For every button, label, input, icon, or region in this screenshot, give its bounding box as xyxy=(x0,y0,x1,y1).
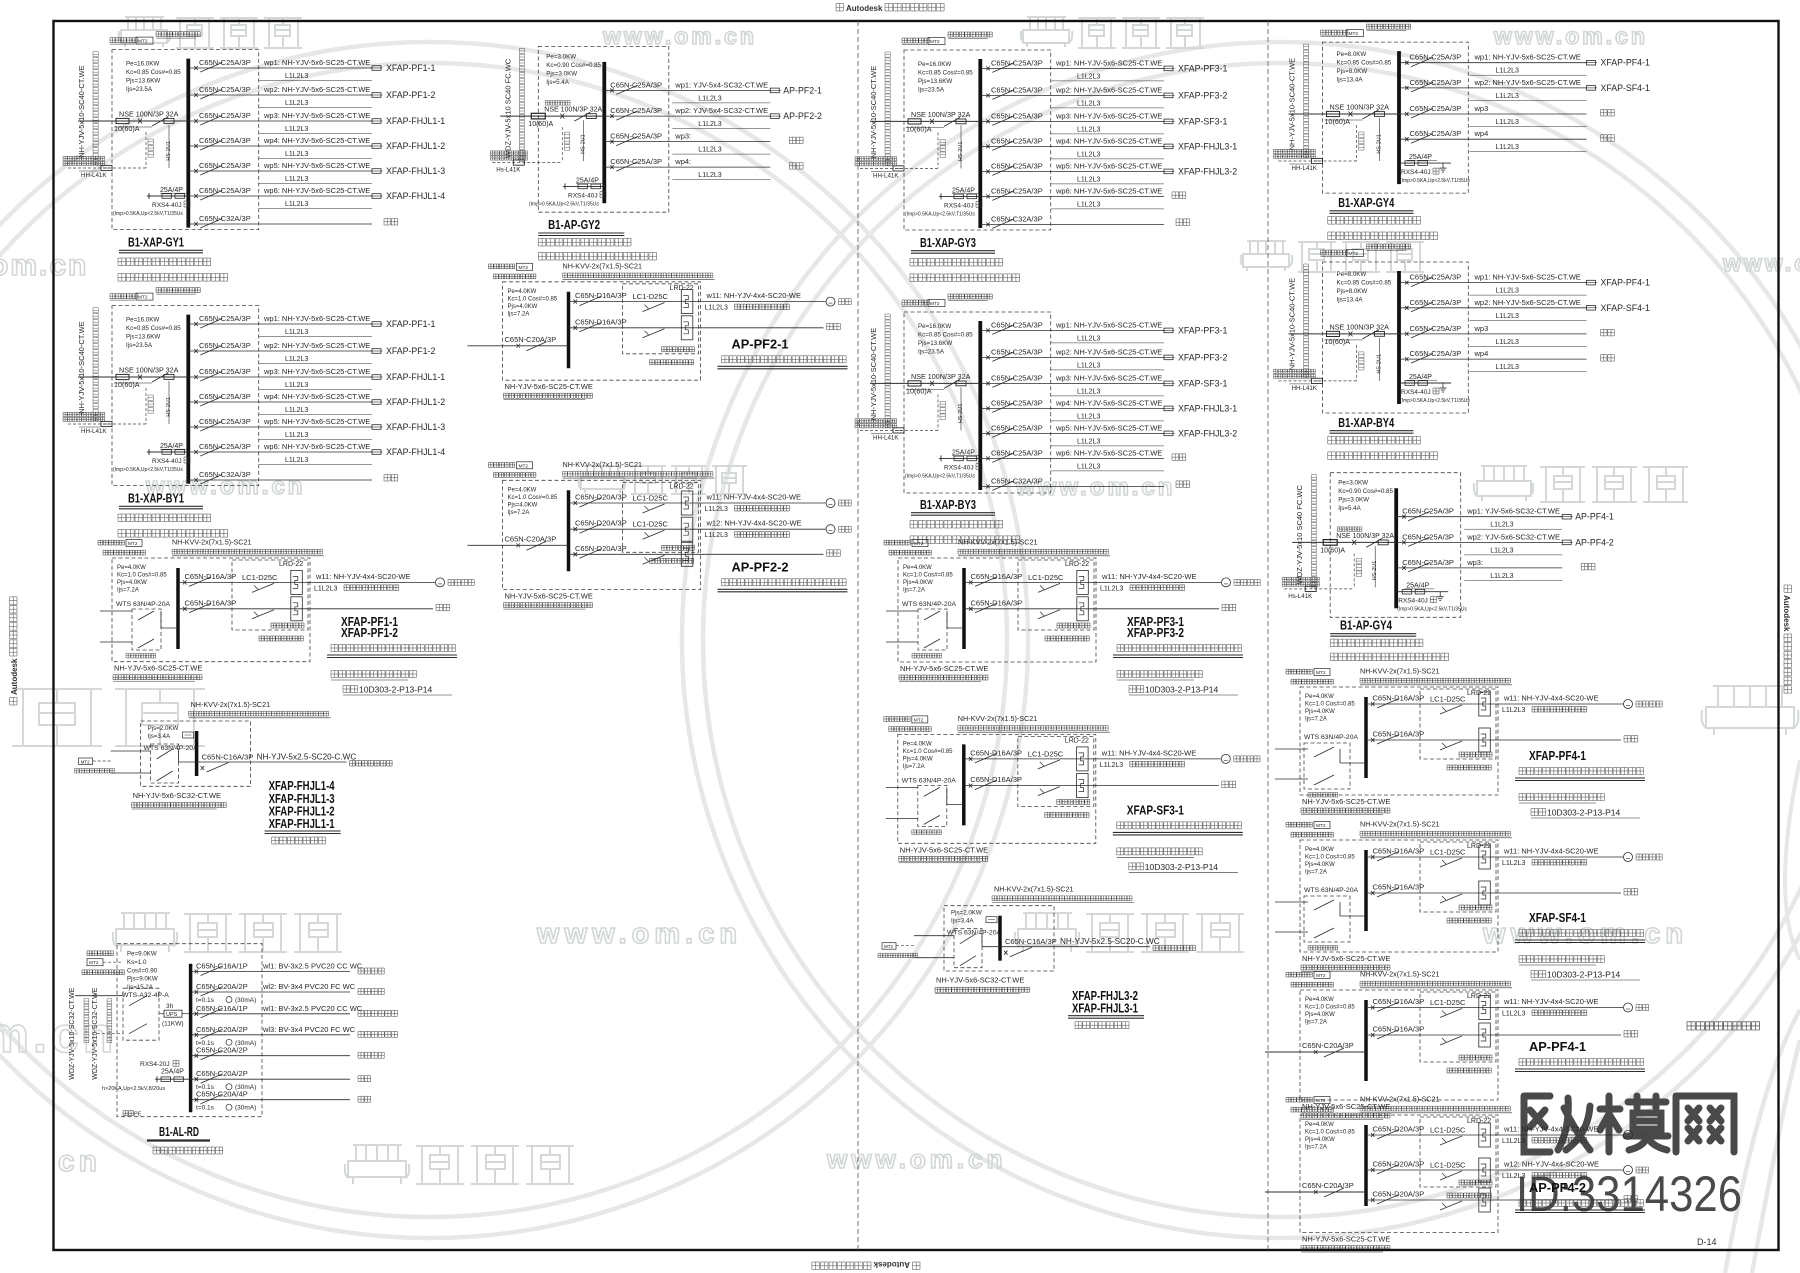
svg-text:RXS4-20J: RXS4-20J xyxy=(140,1061,170,1068)
svg-text:Kc=1.0 Cos#=0.85: Kc=1.0 Cos#=0.85 xyxy=(903,573,953,579)
svg-text:NH-YJV-5x6-SC25-CT.WE: NH-YJV-5x6-SC25-CT.WE xyxy=(505,382,593,391)
svg-text:Ijs=7.2A: Ijs=7.2A xyxy=(1305,870,1327,876)
svg-text:C65N-C20A/3P: C65N-C20A/3P xyxy=(1302,1041,1354,1050)
svg-text:L1L2L3: L1L2L3 xyxy=(285,73,308,80)
svg-text:C65N-C25A/3P: C65N-C25A/3P xyxy=(199,367,251,376)
svg-text:L1L2L3: L1L2L3 xyxy=(698,147,721,154)
svg-text:t=0.1s: t=0.1s xyxy=(196,1105,215,1112)
svg-text:Pjs=8.0KW: Pjs=8.0KW xyxy=(1337,68,1368,75)
svg-text:Cos#=0.90: Cos#=0.90 xyxy=(127,967,158,974)
svg-text:NH-KVV-2x(7x1.5)-SC21: NH-KVV-2x(7x1.5)-SC21 xyxy=(191,700,271,709)
svg-text:XFAP-SF4-1: XFAP-SF4-1 xyxy=(1601,83,1650,93)
svg-text:Ijs=7.2A: Ijs=7.2A xyxy=(1305,1020,1327,1026)
svg-text:NSE 100N/3P 32A: NSE 100N/3P 32A xyxy=(1336,533,1394,540)
svg-text:Kc=0.90 Cos#=0.85: Kc=0.90 Cos#=0.85 xyxy=(1338,488,1393,495)
svg-text:NH-KVV-2x(7x1.5)-SC21: NH-KVV-2x(7x1.5)-SC21 xyxy=(563,261,643,270)
svg-text:LC1-D25C: LC1-D25C xyxy=(242,573,278,582)
svg-text:L1L2L3: L1L2L3 xyxy=(1077,335,1100,342)
svg-text:NH-YJV-5x10-SC40-CT.WE: NH-YJV-5x10-SC40-CT.WE xyxy=(1288,278,1297,371)
svg-text:C65N-C32A/3P: C65N-C32A/3P xyxy=(199,470,251,479)
svg-text:C65N-C25A/3P: C65N-C25A/3P xyxy=(1410,104,1462,113)
svg-text:C65N-D20A/3P: C65N-D20A/3P xyxy=(1373,1160,1425,1169)
svg-text:MT2: MT2 xyxy=(1316,670,1326,676)
svg-text:Autodesk: Autodesk xyxy=(873,1260,910,1269)
svg-text:25A/4P: 25A/4P xyxy=(576,177,599,184)
svg-text:L1L2L3: L1L2L3 xyxy=(698,172,721,179)
svg-text:Ijs=3.4A: Ijs=3.4A xyxy=(148,733,171,740)
svg-text:MT2: MT2 xyxy=(138,295,148,301)
svg-text:C65N-C25A/3P: C65N-C25A/3P xyxy=(199,85,251,94)
svg-text:wp3:: wp3: xyxy=(1466,558,1483,567)
svg-text:C65N-C25A/3P: C65N-C25A/3P xyxy=(610,157,662,166)
svg-text:Pjs=9.0KW: Pjs=9.0KW xyxy=(127,976,158,983)
svg-text:L1L2L3: L1L2L3 xyxy=(1077,73,1100,80)
svg-text:Kc=0.85 Cos#=0.85: Kc=0.85 Cos#=0.85 xyxy=(126,325,181,332)
svg-text:10D303-2-P13-P14: 10D303-2-P13-P14 xyxy=(1547,970,1621,980)
svg-text:XFAP-SF4-1: XFAP-SF4-1 xyxy=(1601,303,1650,313)
svg-text:C65N-D16A/3P: C65N-D16A/3P xyxy=(185,572,237,581)
svg-text:wp4:: wp4: xyxy=(674,157,691,166)
svg-text:MT2: MT2 xyxy=(930,301,940,307)
svg-text:Ijs=23.5A: Ijs=23.5A xyxy=(126,86,153,93)
svg-text:wp1: NH-YJV-5x6-SC25-CT.WE: wp1: NH-YJV-5x6-SC25-CT.WE xyxy=(263,58,370,67)
svg-text:L1L2L3: L1L2L3 xyxy=(285,176,308,183)
svg-text:Pe=4.0KW: Pe=4.0KW xyxy=(1305,847,1334,853)
svg-text:C65N-D16A/3P: C65N-D16A/3P xyxy=(971,598,1023,607)
svg-text:L1L2L3: L1L2L3 xyxy=(698,95,721,102)
svg-text:MT2: MT2 xyxy=(914,717,924,723)
svg-text:C65N-C32A/3P: C65N-C32A/3P xyxy=(199,214,251,223)
svg-text:NH-YJV-5x6-SC25-CT.WE: NH-YJV-5x6-SC25-CT.WE xyxy=(900,664,988,673)
svg-text:wp3: NH-YJV-5x6-SC25-CT.WE: wp3: NH-YJV-5x6-SC25-CT.WE xyxy=(1055,373,1162,382)
svg-text:L1L2L3: L1L2L3 xyxy=(1077,413,1100,420)
svg-text:L1L2L3: L1L2L3 xyxy=(314,585,337,592)
svg-text:WDZ-YJV-5x10-SC32-CT.WE: WDZ-YJV-5x10-SC32-CT.WE xyxy=(92,987,99,1080)
svg-text:XFAP-FHJL3-1: XFAP-FHJL3-1 xyxy=(1178,403,1237,413)
svg-text:Ijs=7.2A: Ijs=7.2A xyxy=(903,764,925,770)
svg-text:wp1: NH-YJV-5x6-SC25-CT.WE: wp1: NH-YJV-5x6-SC25-CT.WE xyxy=(1474,273,1581,282)
svg-text:XFAP-PF4-1: XFAP-PF4-1 xyxy=(1529,749,1586,763)
svg-text:NH-YJV-5x10-SC40-CT.WE: NH-YJV-5x10-SC40-CT.WE xyxy=(869,328,878,421)
svg-text:LRD-22: LRD-22 xyxy=(1065,737,1089,744)
svg-text:C65N-C20A/3P: C65N-C20A/3P xyxy=(505,534,557,543)
svg-text:wl2: BV-3x4 PVC20 FC WC: wl2: BV-3x4 PVC20 FC WC xyxy=(262,982,356,991)
svg-text:wp2: NH-YJV-5x6-SC25-CT.WE: wp2: NH-YJV-5x6-SC25-CT.WE xyxy=(1474,298,1581,307)
svg-text:w11: NH-YJV-4x4-SC20-WE: w11: NH-YJV-4x4-SC20-WE xyxy=(1503,847,1598,856)
svg-text:LC1-D25C: LC1-D25C xyxy=(1430,848,1466,857)
svg-text:Pe=8.0KW: Pe=8.0KW xyxy=(1337,51,1367,58)
svg-text:Pe=16.0KW: Pe=16.0KW xyxy=(126,61,159,68)
svg-text:L1L2L3: L1L2L3 xyxy=(1077,362,1100,369)
svg-text:wp2: NH-YJV-5x6-SC25-CT.WE: wp2: NH-YJV-5x6-SC25-CT.WE xyxy=(263,341,370,350)
svg-text:wp2: YJV-5x4-SC32-CT.WE: wp2: YJV-5x4-SC32-CT.WE xyxy=(674,106,768,115)
svg-text:Ijs=7.2A: Ijs=7.2A xyxy=(117,588,139,594)
svg-text:Pjs=8.0KW: Pjs=8.0KW xyxy=(1337,288,1368,295)
svg-text:(Imp>0.5KA,Up<2.5kV,T1/35Us: (Imp>0.5KA,Up<2.5kV,T1/35Us xyxy=(529,201,599,207)
svg-text:XFAP-SF3-1: XFAP-SF3-1 xyxy=(1178,116,1227,126)
svg-text:Ijs=7.2A: Ijs=7.2A xyxy=(508,510,530,516)
svg-text:L1L2L3: L1L2L3 xyxy=(1077,100,1100,107)
svg-text:(Imp>0.5KA,Up<2.5kV,T1/35Us: (Imp>0.5KA,Up<2.5kV,T1/35Us xyxy=(905,211,975,217)
svg-text:(Imp>0.5KA,Up<2.5kV,T1/35Us: (Imp>0.5KA,Up<2.5kV,T1/35Us xyxy=(1400,398,1470,404)
svg-text:XFAP-FHJL3-2: XFAP-FHJL3-2 xyxy=(1178,166,1237,176)
svg-text:Kc=1.0 Cos#=0.85: Kc=1.0 Cos#=0.85 xyxy=(1305,702,1355,708)
svg-text:C65N-C25A/3P: C65N-C25A/3P xyxy=(991,423,1043,432)
svg-text:Kc=0.90 Cos#=0.85: Kc=0.90 Cos#=0.85 xyxy=(546,62,601,69)
svg-text:L1L2L3: L1L2L3 xyxy=(1496,339,1519,346)
svg-text:C65N-D16A/3P: C65N-D16A/3P xyxy=(971,572,1023,581)
svg-text:XFAP-SF3-1: XFAP-SF3-1 xyxy=(1127,803,1184,817)
svg-text:L1L2L3: L1L2L3 xyxy=(285,100,308,107)
svg-text:wp2: NH-YJV-5x6-SC25-CT.WE: wp2: NH-YJV-5x6-SC25-CT.WE xyxy=(263,85,370,94)
svg-text:Pjs=4.0KW: Pjs=4.0KW xyxy=(1305,862,1335,868)
svg-text:NSE 100N/3P 32A: NSE 100N/3P 32A xyxy=(1330,322,1390,331)
svg-text:XFAP-PF1-2: XFAP-PF1-2 xyxy=(386,346,435,356)
svg-text:Hs-L41K: Hs-L41K xyxy=(496,167,521,174)
svg-text:Kc=1.0 Cos#=0.85: Kc=1.0 Cos#=0.85 xyxy=(508,296,558,302)
svg-text:AP-PF4-1: AP-PF4-1 xyxy=(1575,512,1614,522)
svg-text:Pjs=4.0KW: Pjs=4.0KW xyxy=(508,304,538,310)
svg-text:Pjs=4.0KW: Pjs=4.0KW xyxy=(1305,1012,1335,1018)
svg-text:Pjs=4.0KW: Pjs=4.0KW xyxy=(903,756,933,762)
svg-text:LRD-22: LRD-22 xyxy=(279,561,303,568)
svg-text:w11: NH-YJV-4x4-SC20-WE: w11: NH-YJV-4x4-SC20-WE xyxy=(1503,1125,1598,1134)
svg-text:C65N-D16A/3P: C65N-D16A/3P xyxy=(1373,847,1425,856)
svg-text:www.om.cn: www.om.cn xyxy=(1722,250,1800,276)
svg-text:(Imp>0.5KA,Up<2.5kV,T1/35Us: (Imp>0.5KA,Up<2.5kV,T1/35Us xyxy=(113,467,183,473)
svg-text:wp5: NH-YJV-5x6-SC25-CT.WE: wp5: NH-YJV-5x6-SC25-CT.WE xyxy=(263,417,370,426)
svg-text:Kc=1.0 Cos#=0.85: Kc=1.0 Cos#=0.85 xyxy=(508,495,558,501)
svg-text:L1L2L3: L1L2L3 xyxy=(1496,68,1519,75)
svg-text:Pe=9.0KW: Pe=9.0KW xyxy=(127,951,157,958)
svg-text:Ijs=7.2A: Ijs=7.2A xyxy=(1305,1145,1327,1151)
svg-text:C65N-D20A/3P: C65N-D20A/3P xyxy=(575,519,627,528)
svg-text:Pjs=2.0KW: Pjs=2.0KW xyxy=(951,910,982,917)
svg-text:NH-YJV-5x6-SC32-CT.WE: NH-YJV-5x6-SC32-CT.WE xyxy=(133,791,221,800)
svg-text:NH-YJV-5x6-SC25-CT.WE: NH-YJV-5x6-SC25-CT.WE xyxy=(1302,954,1390,963)
svg-text:wp2: NH-YJV-5x6-SC25-CT.WE: wp2: NH-YJV-5x6-SC25-CT.WE xyxy=(1055,85,1162,94)
svg-text:cn: cn xyxy=(58,1145,101,1178)
svg-text:Ijs=23.5A: Ijs=23.5A xyxy=(126,342,153,349)
svg-text:WTS 63N/4P-20A: WTS 63N/4P-20A xyxy=(116,601,170,608)
svg-text:XFAP-PF3-2: XFAP-PF3-2 xyxy=(1178,352,1227,362)
svg-text:C65N-C25A/3P: C65N-C25A/3P xyxy=(1410,349,1462,358)
svg-text:XFAP-FHJL1-4: XFAP-FHJL1-4 xyxy=(386,447,445,457)
svg-text:NH-YJV-5x10-SC40-CT.WE: NH-YJV-5x10-SC40-CT.WE xyxy=(77,65,86,158)
svg-text:B1-AP-GY2: B1-AP-GY2 xyxy=(548,218,600,232)
svg-text:C65N-D20A/3P: C65N-D20A/3P xyxy=(1373,1190,1425,1199)
svg-text:Pjs=4.0KW: Pjs=4.0KW xyxy=(903,580,933,586)
svg-text:XFAP-FHJL1-2: XFAP-FHJL1-2 xyxy=(386,141,445,151)
svg-text:WDZ-YJV-5x10 SC40 FC.WC: WDZ-YJV-5x10 SC40 FC.WC xyxy=(503,58,512,158)
svg-text:B1-AP-GY4: B1-AP-GY4 xyxy=(1340,619,1392,633)
svg-text:UPS: UPS xyxy=(166,1012,178,1018)
svg-text:HH-L41K: HH-L41K xyxy=(81,172,107,179)
svg-text:Kc=0.85 Cos#=0.85: Kc=0.85 Cos#=0.85 xyxy=(918,332,973,339)
svg-text:Ijs=5.4A: Ijs=5.4A xyxy=(546,79,569,86)
svg-text:HH-L41K: HH-L41K xyxy=(1292,385,1318,392)
svg-text:B1-XAP-GY4: B1-XAP-GY4 xyxy=(1338,196,1394,210)
svg-text:wp6: NH-YJV-5x6-SC25-CT.WE: wp6: NH-YJV-5x6-SC25-CT.WE xyxy=(263,186,370,195)
svg-text:Pe=16.0KW: Pe=16.0KW xyxy=(126,317,159,324)
svg-text:AP-PF2-1: AP-PF2-1 xyxy=(783,85,822,95)
svg-text:RXS4-40J: RXS4-40J xyxy=(152,458,182,465)
svg-text:L1L2L3: L1L2L3 xyxy=(705,532,728,539)
svg-text:Kc=0.85 Cos#=0.85: Kc=0.85 Cos#=0.85 xyxy=(126,69,181,76)
svg-text:LC1-D25C: LC1-D25C xyxy=(1430,1161,1466,1170)
svg-text:NSE 100N/3P 32A: NSE 100N/3P 32A xyxy=(1330,103,1390,112)
svg-text:Pe=16.0KW: Pe=16.0KW xyxy=(918,323,951,330)
svg-text:L1L2L3: L1L2L3 xyxy=(1077,201,1100,208)
svg-text:MT2: MT2 xyxy=(884,944,893,949)
svg-text:Pe=3.0KW: Pe=3.0KW xyxy=(546,53,576,60)
svg-text:C65N-C25A/3P: C65N-C25A/3P xyxy=(991,136,1043,145)
svg-text:Pe=8.0KW: Pe=8.0KW xyxy=(1337,271,1367,278)
svg-text:Pjs=4.0KW: Pjs=4.0KW xyxy=(1305,1137,1335,1143)
svg-text:LRD-22: LRD-22 xyxy=(670,285,694,292)
svg-text:C65N-D16A/3P: C65N-D16A/3P xyxy=(970,775,1022,784)
svg-text:(30mA): (30mA) xyxy=(235,1105,256,1112)
svg-text:w11: NH-YJV-4x4-SC20-WE: w11: NH-YJV-4x4-SC20-WE xyxy=(1101,572,1196,581)
svg-text:NH-YJV-5x10-SC40-CT.WE: NH-YJV-5x10-SC40-CT.WE xyxy=(869,66,878,159)
svg-text:Hs-L41K: Hs-L41K xyxy=(1288,593,1313,600)
svg-text:MT2: MT2 xyxy=(914,541,924,547)
svg-text:LRD-22: LRD-22 xyxy=(1467,843,1491,850)
svg-text:25A/4P: 25A/4P xyxy=(952,187,975,194)
svg-text:Ijs=7.2A: Ijs=7.2A xyxy=(1305,717,1327,723)
svg-text:L1L2L3: L1L2L3 xyxy=(1502,1173,1525,1180)
svg-text:Kc=1.0 Cos#=0.85: Kc=1.0 Cos#=0.85 xyxy=(117,573,167,579)
svg-text:RXS4-40J: RXS4-40J xyxy=(568,192,598,199)
svg-text:L1L2L3: L1L2L3 xyxy=(698,121,721,128)
svg-text:XFAP-PF4-1: XFAP-PF4-1 xyxy=(1601,58,1650,68)
svg-text:C65N-C32A/3P: C65N-C32A/3P xyxy=(991,214,1043,223)
svg-text:C65N-C20A/3P: C65N-C20A/3P xyxy=(505,335,557,344)
svg-text:Kc=1.0 Cos#=0.85: Kc=1.0 Cos#=0.85 xyxy=(1305,855,1355,861)
svg-text:C65N-C25A/3P: C65N-C25A/3P xyxy=(991,58,1043,67)
svg-text:RXS4-40J: RXS4-40J xyxy=(944,464,974,471)
svg-text:L1L2L3: L1L2L3 xyxy=(1496,93,1519,100)
svg-text:om.cn: om.cn xyxy=(0,249,88,282)
svg-text:Ijs=23.5A: Ijs=23.5A xyxy=(918,349,945,356)
svg-text:NH-KVV-2x(7x1.5)-SC21: NH-KVV-2x(7x1.5)-SC21 xyxy=(994,885,1074,894)
svg-text:10(60)A: 10(60)A xyxy=(1325,337,1351,346)
svg-text:XFAP-PF3-1: XFAP-PF3-1 xyxy=(1178,63,1227,73)
svg-text:wp1: NH-YJV-5x6-SC25-CT.WE: wp1: NH-YJV-5x6-SC25-CT.WE xyxy=(1474,53,1581,62)
svg-text:C65N-D16A/3P: C65N-D16A/3P xyxy=(575,317,627,326)
svg-text:w11: NH-YJV-4x4-SC20-WE: w11: NH-YJV-4x4-SC20-WE xyxy=(706,493,801,502)
svg-text:wp5: NH-YJV-5x6-SC25-CT.WE: wp5: NH-YJV-5x6-SC25-CT.WE xyxy=(1055,423,1162,432)
svg-text:WTS 63N/4P-20A: WTS 63N/4P-20A xyxy=(902,777,956,784)
svg-text:Ijs=13.4A: Ijs=13.4A xyxy=(1337,297,1364,304)
svg-text:LC1-D25C: LC1-D25C xyxy=(1028,749,1064,758)
svg-text:C65N-C25A/3P: C65N-C25A/3P xyxy=(199,442,251,451)
svg-text:(Imp>0.5KA,Up<2.5kV,T1/35Us: (Imp>0.5KA,Up<2.5kV,T1/35Us xyxy=(1400,178,1470,184)
svg-text:L1L2L3: L1L2L3 xyxy=(1496,144,1519,151)
svg-text:MT2: MT2 xyxy=(1316,973,1326,979)
svg-text:L1L2L3: L1L2L3 xyxy=(1100,762,1123,769)
svg-text:L1L2L3: L1L2L3 xyxy=(285,356,308,363)
svg-text:XFAP-FHJL1-4: XFAP-FHJL1-4 xyxy=(386,191,445,201)
svg-text:NH-YJV-5x6-SC25-CT.WE: NH-YJV-5x6-SC25-CT.WE xyxy=(1302,797,1390,806)
svg-text:RXS4-40J: RXS4-40J xyxy=(1401,389,1431,396)
svg-text:10(60)A: 10(60)A xyxy=(114,380,140,389)
svg-text:C65N-C25A/3P: C65N-C25A/3P xyxy=(991,161,1043,170)
svg-text:MT2: MT2 xyxy=(519,265,529,271)
svg-text:10(60)A: 10(60)A xyxy=(114,124,140,133)
svg-text:C65N-C25A/3P: C65N-C25A/3P xyxy=(610,132,662,141)
svg-text:XFAP-PF1-2: XFAP-PF1-2 xyxy=(386,90,435,100)
svg-text:L1L2L3: L1L2L3 xyxy=(1496,119,1519,126)
svg-text:XFAP-PF3-2: XFAP-PF3-2 xyxy=(1178,90,1227,100)
svg-text:www.om.cn: www.om.cn xyxy=(536,918,742,950)
svg-text:NH-YJV-5x6-SC25-CT.WE: NH-YJV-5x6-SC25-CT.WE xyxy=(900,845,988,854)
svg-text:10(60)A: 10(60)A xyxy=(906,124,932,133)
svg-text:C65N-C25A/3P: C65N-C25A/3P xyxy=(1410,324,1462,333)
svg-text:XFAP-FHJL1-3: XFAP-FHJL1-3 xyxy=(386,166,445,176)
svg-text:Ijs=23.5A: Ijs=23.5A xyxy=(918,87,945,94)
svg-text:10D303-2-P13-P14: 10D303-2-P13-P14 xyxy=(359,685,433,695)
svg-text:C65N-C25A/3P: C65N-C25A/3P xyxy=(199,417,251,426)
svg-text:L1L2L3: L1L2L3 xyxy=(285,151,308,158)
svg-text:RXS4-40J: RXS4-40J xyxy=(1398,598,1428,605)
svg-text:MT2: MT2 xyxy=(81,760,90,765)
svg-text:www.om.cn: www.om.cn xyxy=(1493,23,1648,49)
svg-text:wp1: YJV-5x6-SC32-CT.WE: wp1: YJV-5x6-SC32-CT.WE xyxy=(1466,507,1560,516)
svg-text:wp4: wp4 xyxy=(1474,349,1489,358)
svg-text:C65N-C16A/3P: C65N-C16A/3P xyxy=(202,753,254,762)
svg-text:(11KW): (11KW) xyxy=(162,1021,184,1028)
svg-text:D-14: D-14 xyxy=(1697,1237,1717,1247)
svg-text:LC1-D25C: LC1-D25C xyxy=(1028,573,1064,582)
svg-text:C65N-D16A/3P: C65N-D16A/3P xyxy=(1373,883,1425,892)
svg-text:LC1-D25C: LC1-D25C xyxy=(1430,695,1466,704)
svg-text:NH-YJV-5x2.5-SC20-C.WC: NH-YJV-5x2.5-SC20-C.WC xyxy=(257,753,357,762)
svg-text:Pe=4.0KW: Pe=4.0KW xyxy=(508,487,537,493)
svg-text:L1L2L3: L1L2L3 xyxy=(1502,1138,1525,1145)
svg-text:w11: NH-YJV-4x4-SC20-WE: w11: NH-YJV-4x4-SC20-WE xyxy=(706,291,801,300)
svg-text:XFAP-FHJL3-1: XFAP-FHJL3-1 xyxy=(1072,1002,1138,1016)
svg-text:Pjs=13.6KW: Pjs=13.6KW xyxy=(918,78,952,85)
svg-text:XFAP-FHJL1-3: XFAP-FHJL1-3 xyxy=(386,422,445,432)
svg-text:XFAP-PF3-1: XFAP-PF3-1 xyxy=(1178,325,1227,335)
svg-text:Pe=4.0KW: Pe=4.0KW xyxy=(903,565,932,571)
svg-text:10(60)A: 10(60)A xyxy=(1325,117,1351,126)
svg-text:RXS4-40J: RXS4-40J xyxy=(944,202,974,209)
svg-text:WDZ-YJV-5x10-SC32-CT.WE: WDZ-YJV-5x10-SC32-CT.WE xyxy=(69,987,76,1080)
svg-text:Ks=1.0: Ks=1.0 xyxy=(127,959,147,966)
svg-text:Kc=0.85 Cos#=0.85: Kc=0.85 Cos#=0.85 xyxy=(1337,280,1392,287)
svg-text:C65N-C25A/3P: C65N-C25A/3P xyxy=(199,136,251,145)
svg-text:wp1: NH-YJV-5x6-SC25-CT.WE: wp1: NH-YJV-5x6-SC25-CT.WE xyxy=(263,314,370,323)
svg-text:Pjs=4.0KW: Pjs=4.0KW xyxy=(1305,709,1335,715)
svg-text:L1L2L3: L1L2L3 xyxy=(285,432,308,439)
svg-text:wl1: BV-3x2.5 PVC20 CC WC: wl1: BV-3x2.5 PVC20 CC WC xyxy=(262,962,363,971)
svg-text:Pjs=3.0KW: Pjs=3.0KW xyxy=(1338,497,1369,504)
svg-text:C65N-C25A/3P: C65N-C25A/3P xyxy=(991,186,1043,195)
svg-text:NH-KVV-2x(7x1.5)-SC21: NH-KVV-2x(7x1.5)-SC21 xyxy=(1360,667,1440,676)
svg-text:Pjs=3.0KW: Pjs=3.0KW xyxy=(546,70,577,77)
svg-text:Pjs=4.0KW: Pjs=4.0KW xyxy=(508,502,538,508)
svg-text:XFAP-SF4-1: XFAP-SF4-1 xyxy=(1529,911,1586,925)
svg-text:wp4: wp4 xyxy=(1474,129,1489,138)
svg-text:L1L2L3: L1L2L3 xyxy=(705,305,728,312)
svg-text:C65N-C25A/3P: C65N-C25A/3P xyxy=(991,448,1043,457)
svg-text:B1-XAP-BY4: B1-XAP-BY4 xyxy=(1338,416,1394,430)
svg-text:NH-KVV-2x(7x1.5)-SC21: NH-KVV-2x(7x1.5)-SC21 xyxy=(563,460,643,469)
svg-text:Pe=16.0KW: Pe=16.0KW xyxy=(918,61,951,68)
svg-text:XFAP-FHJL3-1: XFAP-FHJL3-1 xyxy=(1178,141,1237,151)
svg-text:B1-XAP-BY3: B1-XAP-BY3 xyxy=(920,498,976,512)
svg-text:WDZ-YJV-5x10 SC40 FC.WC: WDZ-YJV-5x10 SC40 FC.WC xyxy=(1295,485,1304,585)
svg-text:XFAP-PF1-1: XFAP-PF1-1 xyxy=(386,63,435,73)
svg-text:NSE 100N/3P 32A: NSE 100N/3P 32A xyxy=(119,110,179,119)
svg-text:L1L2L3: L1L2L3 xyxy=(1077,463,1100,470)
svg-text:10D303-2-P13-P14: 10D303-2-P13-P14 xyxy=(1145,685,1219,695)
svg-text:L1L2L3: L1L2L3 xyxy=(1077,388,1100,395)
svg-text:C65N-C25A/3P: C65N-C25A/3P xyxy=(1410,78,1462,87)
svg-text:Kc=0.85 Cos#=0.85: Kc=0.85 Cos#=0.85 xyxy=(1337,60,1392,67)
svg-text:Pjs=4.0KW: Pjs=4.0KW xyxy=(117,580,147,586)
svg-text:MT2: MT2 xyxy=(138,39,148,45)
svg-text:wp4: NH-YJV-5x6-SC25-CT.WE: wp4: NH-YJV-5x6-SC25-CT.WE xyxy=(1055,136,1162,145)
svg-text:B1-XAP-GY1: B1-XAP-GY1 xyxy=(128,236,184,250)
svg-text:LC1-D25C: LC1-D25C xyxy=(633,520,669,529)
svg-text:NH-KVV-2x(7x1.5)-SC21: NH-KVV-2x(7x1.5)-SC21 xyxy=(1360,820,1440,829)
svg-text:L1L2L3: L1L2L3 xyxy=(1077,151,1100,158)
svg-text:XFAP-PF4-1: XFAP-PF4-1 xyxy=(1601,278,1650,288)
svg-text:MT2: MT2 xyxy=(1316,823,1326,829)
svg-text:MT2: MT2 xyxy=(1316,1098,1326,1104)
svg-text:Ijs=3.4A: Ijs=3.4A xyxy=(951,918,974,925)
svg-text:XFAP-FHJL3-2: XFAP-FHJL3-2 xyxy=(1178,428,1237,438)
svg-text:C65N-C25A/3P: C65N-C25A/3P xyxy=(991,85,1043,94)
svg-text:NH-YJV-5x6-SC25-CT.WE: NH-YJV-5x6-SC25-CT.WE xyxy=(114,664,202,673)
svg-text:WTS 63N/4P-20A: WTS 63N/4P-20A xyxy=(1304,887,1358,894)
svg-text:L1L2L3: L1L2L3 xyxy=(1077,176,1100,183)
svg-text:C65N-D16A/3P: C65N-D16A/3P xyxy=(1373,997,1425,1006)
svg-text:AP-PF2-1: AP-PF2-1 xyxy=(732,337,789,351)
svg-text:L1L2L3: L1L2L3 xyxy=(285,457,308,464)
svg-text:C65N-C25A/3P: C65N-C25A/3P xyxy=(1402,507,1454,516)
svg-text:XFAP-FHJL1-1: XFAP-FHJL1-1 xyxy=(386,116,445,126)
svg-text:XFAP-FHJL1-1: XFAP-FHJL1-1 xyxy=(269,817,335,831)
svg-text:Pe=4.0KW: Pe=4.0KW xyxy=(508,289,537,295)
svg-text:3h: 3h xyxy=(166,1003,174,1010)
svg-text:C65N-D16A/3P: C65N-D16A/3P xyxy=(1373,730,1425,739)
svg-text:WTS 63N/4P-20A: WTS 63N/4P-20A xyxy=(947,930,1001,937)
svg-text:wp5: NH-YJV-5x6-SC25-CT.WE: wp5: NH-YJV-5x6-SC25-CT.WE xyxy=(263,161,370,170)
svg-text:C65N-D20A/3P: C65N-D20A/3P xyxy=(575,493,627,502)
svg-text:NH-YJV-5x10-SC40-CT.WE: NH-YJV-5x10-SC40-CT.WE xyxy=(77,321,86,414)
svg-text:10D303-2-P13-P14: 10D303-2-P13-P14 xyxy=(1145,862,1219,872)
svg-text:MT2: MT2 xyxy=(89,960,99,966)
svg-text:Kc=0.85 Cos#=0.85: Kc=0.85 Cos#=0.85 xyxy=(918,70,973,77)
svg-text:C65N-D16A/3P: C65N-D16A/3P xyxy=(575,291,627,300)
svg-text:RXS4-40J: RXS4-40J xyxy=(152,202,182,209)
svg-text:HH-L41K: HH-L41K xyxy=(81,428,107,435)
svg-text:C65N-C32A/3P: C65N-C32A/3P xyxy=(991,476,1043,485)
svg-text:MT2: MT2 xyxy=(519,463,529,469)
svg-text:wp2: NH-YJV-5x6-SC25-CT.WE: wp2: NH-YJV-5x6-SC25-CT.WE xyxy=(1474,78,1581,87)
svg-text:wp2: YJV-5x6-SC32-CT.WE: wp2: YJV-5x6-SC32-CT.WE xyxy=(1466,532,1560,541)
svg-text:wp1: NH-YJV-5x6-SC25-CT.WE: wp1: NH-YJV-5x6-SC25-CT.WE xyxy=(1055,58,1162,67)
svg-text:MT2: MT2 xyxy=(1349,31,1359,37)
svg-text:LRD-22: LRD-22 xyxy=(670,483,694,490)
svg-text:10(60)A: 10(60)A xyxy=(1320,547,1345,554)
svg-text:wp2: NH-YJV-5x6-SC25-CT.WE: wp2: NH-YJV-5x6-SC25-CT.WE xyxy=(1055,347,1162,356)
svg-text:Ijs=5.4A: Ijs=5.4A xyxy=(1338,505,1361,512)
